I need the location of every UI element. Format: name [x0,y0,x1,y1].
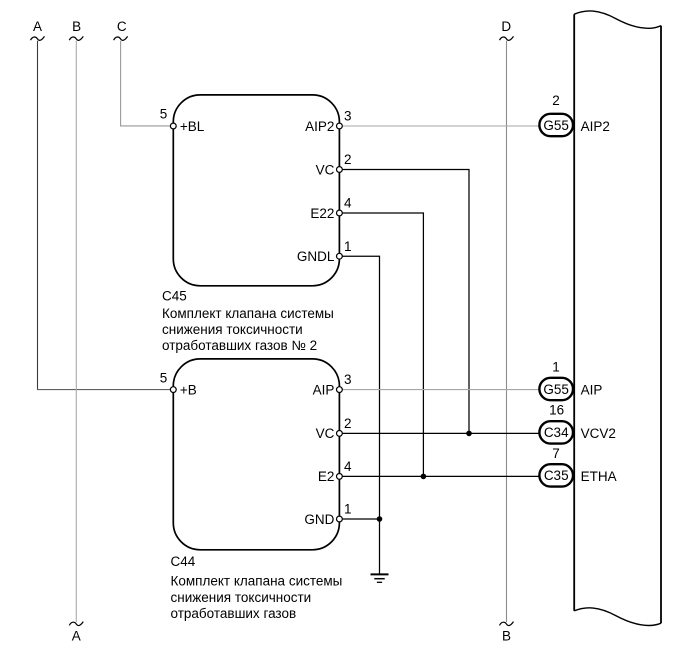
pin 4 E2 of C44 [337,474,343,480]
svg-text:C44: C44 [171,554,196,569]
svg-text:4: 4 [344,196,352,211]
ground [371,574,389,582]
wire AIP (C44 pin3 to G55) [343,389,539,391]
svg-text:3: 3 [344,372,352,387]
svg-text:отработавших газов: отработавших газов [171,606,297,621]
svg-text:1: 1 [344,239,352,254]
svg-text:VC: VC [316,162,335,177]
svg-text:16: 16 [549,402,564,417]
junction VC/VCV2 [466,431,472,437]
svg-text:5: 5 [160,370,168,385]
junction GND/GNDL [377,516,383,522]
svg-text:GND: GND [304,512,334,527]
wire C to pin +BL of C45 [121,41,171,126]
svg-text:1: 1 [552,360,560,375]
svg-text:+B: +B [180,382,197,397]
connector C35 pin 7 (ETHA) [539,446,573,487]
svg-text:4: 4 [344,459,352,474]
valve assembly box C44 [173,359,339,550]
pin 5 +BL of C45 [170,123,176,129]
pin 1 GNDL of C45 [337,253,343,259]
svg-text:G55: G55 [543,382,569,397]
node B (top) [69,19,83,40]
wire VC (C45 pin2 down to VCV2 net) [343,170,470,434]
connector G55 pin 2 (AIP2) [539,93,573,136]
svg-text:отработавших газов № 2: отработавших газов № 2 [162,338,317,353]
svg-text:3: 3 [344,109,352,124]
svg-text:+BL: +BL [180,119,205,134]
pin 2 VC of C45 [337,167,343,173]
wire D (vertical, top D to bottom B) [506,41,508,623]
connector C34 pin 16 (VCV2) [539,402,573,443]
wire GNDL (C45 pin1 down to ground) [343,256,380,574]
svg-text:GNDL: GNDL [297,249,335,264]
ECU block (torn-edge rectangle) [574,11,661,626]
svg-text:VC: VC [316,426,335,441]
svg-text:C34: C34 [544,425,569,440]
svg-text:E22: E22 [310,206,334,221]
svg-text:A: A [33,19,42,34]
wire B (vertical, top A to bottom A) [75,41,77,623]
svg-text:5: 5 [160,107,168,122]
svg-text:E2: E2 [318,469,335,484]
svg-text:VCV2: VCV2 [581,426,616,441]
pin 2 VC of C44 [337,431,343,437]
node A (bottom, end of line B) [69,622,83,644]
svg-text:C35: C35 [544,468,569,483]
node A (top) [31,19,45,40]
svg-text:снижения токсичности: снижения токсичности [171,590,312,605]
svg-text:2: 2 [344,152,352,167]
svg-text:AIP2: AIP2 [305,119,334,134]
svg-text:B: B [502,628,511,643]
wire E22 (C45 pin4 down to ETHA net) [343,213,424,476]
node B (bottom, end of line D) [500,622,514,644]
wire GND (C44 pin1 to ground wire) [343,518,380,520]
svg-text:C: C [117,19,127,34]
pin 3 AIP of C44 [337,387,343,393]
svg-text:C45: C45 [162,288,187,303]
svg-text:2: 2 [552,93,560,108]
valve assembly box C45 [173,95,339,286]
svg-text:1: 1 [344,502,352,517]
svg-text:D: D [501,19,511,34]
wire E2 (C44 pin4 to C35) [343,475,540,477]
svg-text:G55: G55 [543,118,569,133]
node C (top) [114,19,128,40]
wire AIP2 (C45 pin3 to G55) [343,125,539,127]
svg-text:Комплект клапана системы: Комплект клапана системы [171,574,343,589]
pin 3 AIP2 of C45 [337,123,343,129]
svg-text:AIP: AIP [313,382,335,397]
pin 4 E22 of C45 [337,210,343,216]
wire A horizontal segment to pin +B of C44 [37,389,170,391]
junction E2/ETHA [421,474,427,480]
svg-text:A: A [72,628,81,643]
pin 5 +B of C44 [170,387,176,393]
svg-text:AIP: AIP [581,382,603,397]
connector G55 pin 1 (AIP) [539,360,573,401]
svg-text:снижения токсичности: снижения токсичности [162,322,303,337]
svg-text:Комплект клапана системы: Комплект клапана системы [162,306,334,321]
svg-text:2: 2 [344,416,352,431]
wire VC (C44 pin2 to C34) [343,432,540,434]
node D (top) [500,19,514,40]
wire A vertical segment [37,41,39,390]
pin 1 GND of C44 [337,516,343,522]
svg-text:AIP2: AIP2 [581,119,610,134]
svg-text:7: 7 [552,446,560,461]
svg-text:B: B [72,19,81,34]
svg-text:ETHA: ETHA [581,469,617,484]
